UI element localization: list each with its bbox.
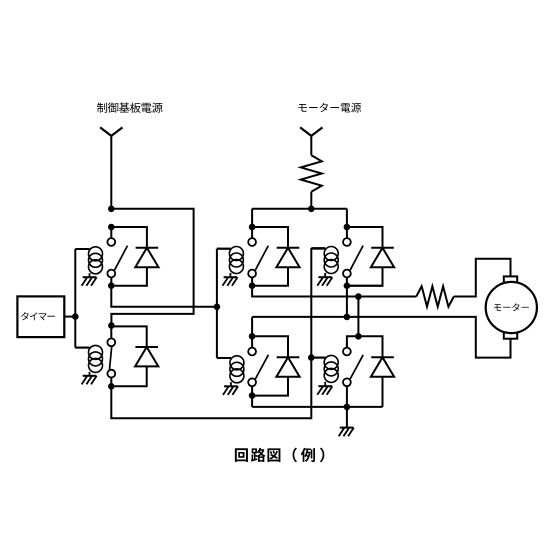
relay K4 coil <box>311 247 338 277</box>
wire K4 diode bottom <box>347 267 383 286</box>
node K4 input <box>344 224 351 231</box>
diode D6 <box>371 357 394 376</box>
ground K1 coil <box>82 277 97 286</box>
relay K6 coil <box>311 355 338 385</box>
wire K6 diode bottom <box>382 377 384 407</box>
wire VR to K6 coil <box>311 357 325 359</box>
wire VL to K5 coil <box>217 357 231 359</box>
node K2 output <box>108 383 115 390</box>
relay K1 coil <box>75 247 102 277</box>
node motor rail junction <box>308 206 315 213</box>
diode D4 <box>371 248 394 267</box>
switch K4 (open) <box>343 227 363 286</box>
relay K3 coil <box>217 247 244 277</box>
wire to ground <box>346 407 348 428</box>
power symbol motor (Y) <box>300 127 322 135</box>
wire V2 to K6 input <box>357 297 359 337</box>
timer label タイマー <box>21 312 55 320</box>
wire K5 output to ground rail <box>251 396 253 407</box>
left coil-drive vertical VL <box>216 249 218 358</box>
caption 回路図（例） <box>235 448 324 463</box>
wire motor rail <box>252 208 347 210</box>
ground K6 coil <box>317 386 332 395</box>
diode D1 <box>135 248 158 267</box>
power label モーター電源 <box>298 103 361 113</box>
wire K2 output to VR (bottom run) <box>111 248 311 418</box>
node VR junction <box>308 354 315 361</box>
ground rail <box>252 406 382 408</box>
ground K2 coil <box>82 376 97 385</box>
diode D5 <box>276 357 299 376</box>
diode D3 <box>276 248 299 267</box>
motor M1 body <box>486 282 537 333</box>
switch K2 (closed) <box>107 326 115 387</box>
wire K3 output to motor wire A <box>252 286 416 297</box>
wire control power drop <box>110 135 112 209</box>
node K5 output <box>249 392 256 399</box>
wire K2 diode bottom <box>111 366 146 386</box>
wire control rail to K2 feed <box>111 209 193 326</box>
timer box <box>17 296 64 337</box>
node K5 input <box>249 333 256 340</box>
node ground rail junction <box>344 404 351 411</box>
relay K2 coil <box>75 345 102 375</box>
node A-to-K6 junction <box>355 293 362 300</box>
wire rail drop to K4 <box>346 209 348 227</box>
resistor R2 (motor series) <box>416 286 454 306</box>
wire K3 diode bottom <box>252 267 288 286</box>
node K3 input <box>249 224 256 231</box>
motor label モーター <box>494 303 529 311</box>
ground main <box>339 428 354 437</box>
motor brush top <box>504 276 517 283</box>
switch K6 (open) <box>343 342 363 407</box>
node B junction <box>344 314 351 321</box>
switch K3 (open) <box>248 227 268 286</box>
wire K5 diode bottom <box>252 377 288 396</box>
node timer junction <box>72 313 79 320</box>
wire K6 input jog <box>347 336 359 347</box>
switch K1 (open) <box>107 227 127 286</box>
wire rail drop to K3 <box>251 209 253 227</box>
wire K1 diode bottom <box>111 267 147 286</box>
node K4 output <box>344 282 351 289</box>
node K6 input <box>355 333 362 340</box>
wire K5 diode top <box>252 336 288 357</box>
wire B to K5 input <box>251 317 253 336</box>
wire VL to K3 coil <box>217 248 231 250</box>
wire K4 diode top <box>347 227 383 248</box>
power symbol control (Y) <box>100 127 122 135</box>
node K1 input <box>108 224 115 231</box>
wire K6 diode top <box>358 336 382 357</box>
wire K3 diode top <box>252 227 288 248</box>
ground K3 coil <box>223 277 238 286</box>
wire VR to K4 coil <box>311 247 325 249</box>
motor wire B <box>252 317 510 358</box>
wire resistor to motor top <box>454 259 511 297</box>
resistor R1 (motor power) <box>301 155 322 192</box>
node K2 input <box>108 322 115 329</box>
wire timer to coils <box>64 249 89 348</box>
diode D2 <box>135 347 158 366</box>
node control rail junction <box>108 206 115 213</box>
motor brush bottom <box>504 332 517 339</box>
node K1 output <box>108 282 115 289</box>
wire motor power to resistor <box>310 135 312 155</box>
node VL junction <box>214 304 221 311</box>
power label 制御基板電源 <box>97 102 163 112</box>
wire K1 diode top <box>111 227 147 248</box>
wire K1 output to VL <box>111 286 217 307</box>
relay K5 coil <box>217 356 244 386</box>
switch K5 (open) <box>248 336 268 395</box>
node K3 output <box>249 282 256 289</box>
wire K4 output to wire B <box>347 285 383 287</box>
ground K4 coil <box>317 277 332 286</box>
wire resistor to rail <box>310 192 312 209</box>
ground K5 coil <box>223 386 238 395</box>
wire K2 diode top <box>111 326 146 347</box>
